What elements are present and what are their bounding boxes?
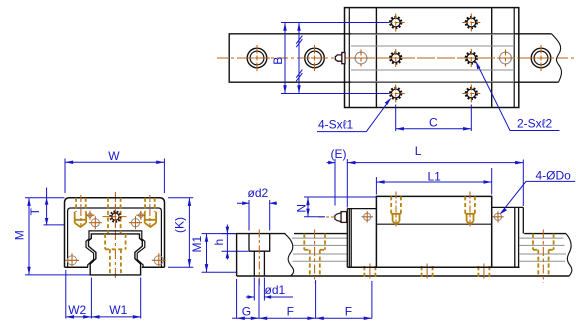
tapped hole side view at 396 bbox=[391, 192, 401, 228]
dimension L1 line bbox=[376, 181, 491, 183]
dimension B line bbox=[284, 23, 286, 94]
gray port circle (95.3,222.7) bbox=[89, 216, 102, 229]
rail groove lines left (side view) bbox=[292, 238, 347, 261]
rail outline (top view) bbox=[229, 34, 558, 82]
threaded hole T5 (395.7,93.5) bbox=[387, 85, 405, 103]
rail mounting hole (314.5,58) bbox=[302, 45, 328, 71]
svg-text:F: F bbox=[345, 305, 352, 319]
od1 extension lines bbox=[254, 278, 264, 301]
dimension od2 line with outside arrows bbox=[237, 202, 277, 204]
W2/W1 extension lines bbox=[66, 270, 141, 319]
grease nipple (side view) bbox=[318, 212, 347, 223]
dimension C extension lines bbox=[396, 105, 472, 132]
block outer outline (front view) bbox=[65, 198, 165, 268]
threaded hole T4 (471.3,58) bbox=[462, 49, 480, 67]
block body edge left bbox=[375, 8, 377, 108]
hidden hole redraw (505.5,58) bbox=[497, 50, 514, 67]
block bottom edges (front view) bbox=[65, 266, 165, 268]
svg-text:B: B bbox=[271, 57, 285, 65]
svg-text:L1: L1 bbox=[428, 169, 442, 183]
L right extension bbox=[522, 160, 524, 207]
svg-text:T: T bbox=[28, 207, 42, 215]
threaded hole T2 (471.3,22.5) bbox=[462, 14, 480, 32]
svg-text:W2: W2 bbox=[68, 303, 86, 317]
N extension lines bbox=[304, 197, 376, 217]
center hole hidden column (front view) bbox=[108, 198, 121, 234]
leader 2-Sxl2 bbox=[477, 63, 560, 131]
hidden hole crossing strip at 427 bbox=[422, 264, 433, 279]
centerline over block bbox=[344, 57, 519, 59]
rail top edge right of section break bbox=[294, 233, 566, 235]
dimension N line bbox=[307, 197, 309, 217]
right end plate (side view) bbox=[492, 207, 524, 267]
threaded hole T1 (395.7,22.5) bbox=[387, 14, 405, 32]
counterbored hole section (cut) bbox=[249, 234, 270, 276]
dimension F2 line bbox=[316, 317, 372, 319]
dimension M line bbox=[28, 198, 30, 275]
(E) extension lines bbox=[335, 159, 347, 208]
threaded hole T6 (471.3,93.5) bbox=[462, 85, 480, 103]
dimension W extension lines bbox=[65, 159, 164, 194]
rail right end break (side view) bbox=[566, 234, 572, 276]
leader 4-Sxl1 bbox=[317, 99, 390, 132]
rail section break line bbox=[285, 234, 294, 276]
svg-text:M1: M1 bbox=[190, 236, 204, 253]
svg-text:L: L bbox=[415, 144, 422, 158]
block body edge right bbox=[491, 8, 493, 108]
gray diamond (140.8,215.2) bbox=[136, 211, 145, 220]
hidden counterbored hole at 314.5 (side view) bbox=[304, 230, 325, 283]
rail section outline bbox=[237, 234, 570, 276]
svg-text:ød2: ød2 bbox=[248, 186, 269, 200]
rail bolt counterbore hidden (front view) bbox=[105, 234, 126, 275]
dimension F1 line bbox=[259, 317, 316, 319]
L1 extension lines bbox=[376, 168, 491, 195]
block end seal line right bbox=[513, 8, 515, 108]
hidden hole crossing strip at 370 bbox=[364, 264, 375, 279]
tapped hole hidden right (front view) bbox=[145, 195, 156, 227]
block body (side view) bbox=[376, 196, 491, 267]
leader 4-ODo bbox=[501, 181, 576, 213]
svg-text:F: F bbox=[287, 305, 294, 319]
dimension C line bbox=[396, 128, 472, 130]
svg-text:4-ØDo: 4-ØDo bbox=[536, 168, 572, 182]
gray corner circle (158.8,260.3) bbox=[152, 253, 166, 267]
dimension W2 line bbox=[66, 316, 92, 318]
gray hidden lines redrawn over block interior bbox=[351, 34, 514, 81]
svg-text:h: h bbox=[212, 239, 226, 246]
rail groove lines right (side view) bbox=[520, 238, 567, 261]
hidden rail hole under block (361,58) bbox=[353, 50, 370, 67]
h extension lines bbox=[222, 234, 249, 252]
svg-text:2-Sxℓ2: 2-Sxℓ2 bbox=[517, 116, 553, 130]
block end seal line left bbox=[348, 8, 350, 108]
vertical centerline (front view) bbox=[114, 192, 116, 281]
threaded hole T3 (395.7,58) bbox=[387, 49, 405, 67]
block bottom line (side view) bbox=[347, 266, 519, 268]
dimension od1 line with outside arrows bbox=[246, 296, 293, 298]
block cavity contour (front view) bbox=[86, 231, 145, 267]
rail break line (top view right end) bbox=[552, 34, 562, 82]
block outline (top view) bbox=[345, 8, 519, 108]
block inner face line (front view) bbox=[68, 208, 162, 267]
G/F extension lines bbox=[237, 279, 372, 318]
dimension M top extension bbox=[25, 197, 65, 199]
od2 extension lines bbox=[249, 200, 270, 231]
dimension M1 line bbox=[206, 234, 208, 273]
rail centerline (top view) bbox=[217, 57, 576, 59]
dimension G line bbox=[232, 317, 237, 319]
svg-text:ød1: ød1 bbox=[265, 283, 286, 297]
svg-text:C: C bbox=[429, 116, 438, 130]
svg-text:N: N bbox=[294, 204, 308, 213]
Do hole right end plate bbox=[492, 211, 503, 222]
svg-text:G: G bbox=[242, 305, 251, 319]
grease nipple (top view) bbox=[335, 53, 345, 64]
rail cross-section profile (front view) bbox=[89, 234, 143, 275]
dimension W1 line bbox=[91, 316, 141, 318]
dimension L line bbox=[347, 162, 523, 164]
svg-text:(E): (E) bbox=[331, 147, 347, 161]
hidden hole redraw (361,58) bbox=[353, 50, 370, 67]
dimension T line bbox=[46, 188, 48, 225]
rail mounting hole (541,58) bbox=[528, 45, 554, 71]
dimension B extension lines bbox=[281, 23, 389, 94]
dimension B second line with marks bbox=[298, 23, 300, 94]
dimension h line with outside arrows bbox=[226, 225, 228, 260]
svg-text:(K): (K) bbox=[172, 217, 186, 233]
hidden hole crossing strip at 484 bbox=[478, 264, 489, 279]
rail mounting hole (257,58) bbox=[244, 45, 270, 71]
gray diamond (90,215.2) bbox=[86, 211, 95, 220]
parallel marks on second B line bbox=[296, 36, 302, 82]
gray corner circle (72,260.3) bbox=[65, 253, 79, 267]
hidden counterbored hole at 543 (side view) bbox=[533, 230, 554, 283]
left end plate (side view) bbox=[347, 209, 376, 268]
tapped hole hidden left (front view) bbox=[75, 195, 86, 227]
hole centerline bbox=[258, 230, 260, 288]
hidden rail hole under block (505.5,58) bbox=[497, 50, 514, 67]
hidden rail edges under block (gray) bbox=[351, 34, 514, 81]
Do hole left end plate bbox=[362, 211, 373, 222]
svg-text:W: W bbox=[108, 149, 120, 163]
block body lower line bbox=[376, 223, 491, 225]
end face threaded hole (front view center) bbox=[103, 204, 129, 229]
svg-text:W1: W1 bbox=[109, 303, 127, 317]
T bottom extension bbox=[44, 224, 65, 226]
svg-text:4-Sxℓ1: 4-Sxℓ1 bbox=[318, 118, 354, 132]
svg-text:M: M bbox=[12, 230, 26, 240]
tapped hole side view at 470 bbox=[465, 192, 475, 228]
dimension (K) line bbox=[188, 198, 190, 268]
dimension W line bbox=[65, 161, 164, 163]
(K) extension lines bbox=[168, 198, 193, 268]
dimension M bottom extension bbox=[25, 274, 90, 276]
(E) outside arrows bbox=[327, 162, 336, 164]
gray port circle (135.5,222.7) bbox=[129, 216, 142, 229]
M1 extension lines bbox=[202, 234, 237, 273]
